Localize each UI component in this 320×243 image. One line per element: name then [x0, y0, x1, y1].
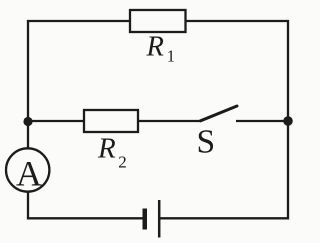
resistor R1: [130, 10, 186, 32]
wire switch contact to right: [236, 120, 288, 122]
resistor R2: [84, 110, 138, 132]
switch S blade: [201, 106, 238, 121]
wire junction to R2: [28, 120, 84, 122]
svg-text:1: 1: [167, 47, 175, 66]
node left junction: [23, 117, 32, 126]
ammeter A: [6, 148, 49, 191]
svg-text:S: S: [197, 124, 216, 161]
node right junction: [283, 116, 293, 126]
svg-text:R: R: [146, 31, 164, 62]
wire R2 to switch: [138, 120, 201, 122]
wire left-top vertical and top-left horizontal: [28, 21, 130, 149]
wire top-right horizontal, right vertical, bottom-right horizontal: [159, 21, 288, 218]
svg-text:R: R: [97, 132, 116, 164]
wire ammeter bottom, bottom-left corner to battery: [28, 192, 143, 219]
battery short plate: [143, 209, 148, 230]
battery long plate: [158, 200, 161, 238]
svg-text:2: 2: [118, 153, 127, 172]
svg-text:A: A: [16, 153, 42, 193]
